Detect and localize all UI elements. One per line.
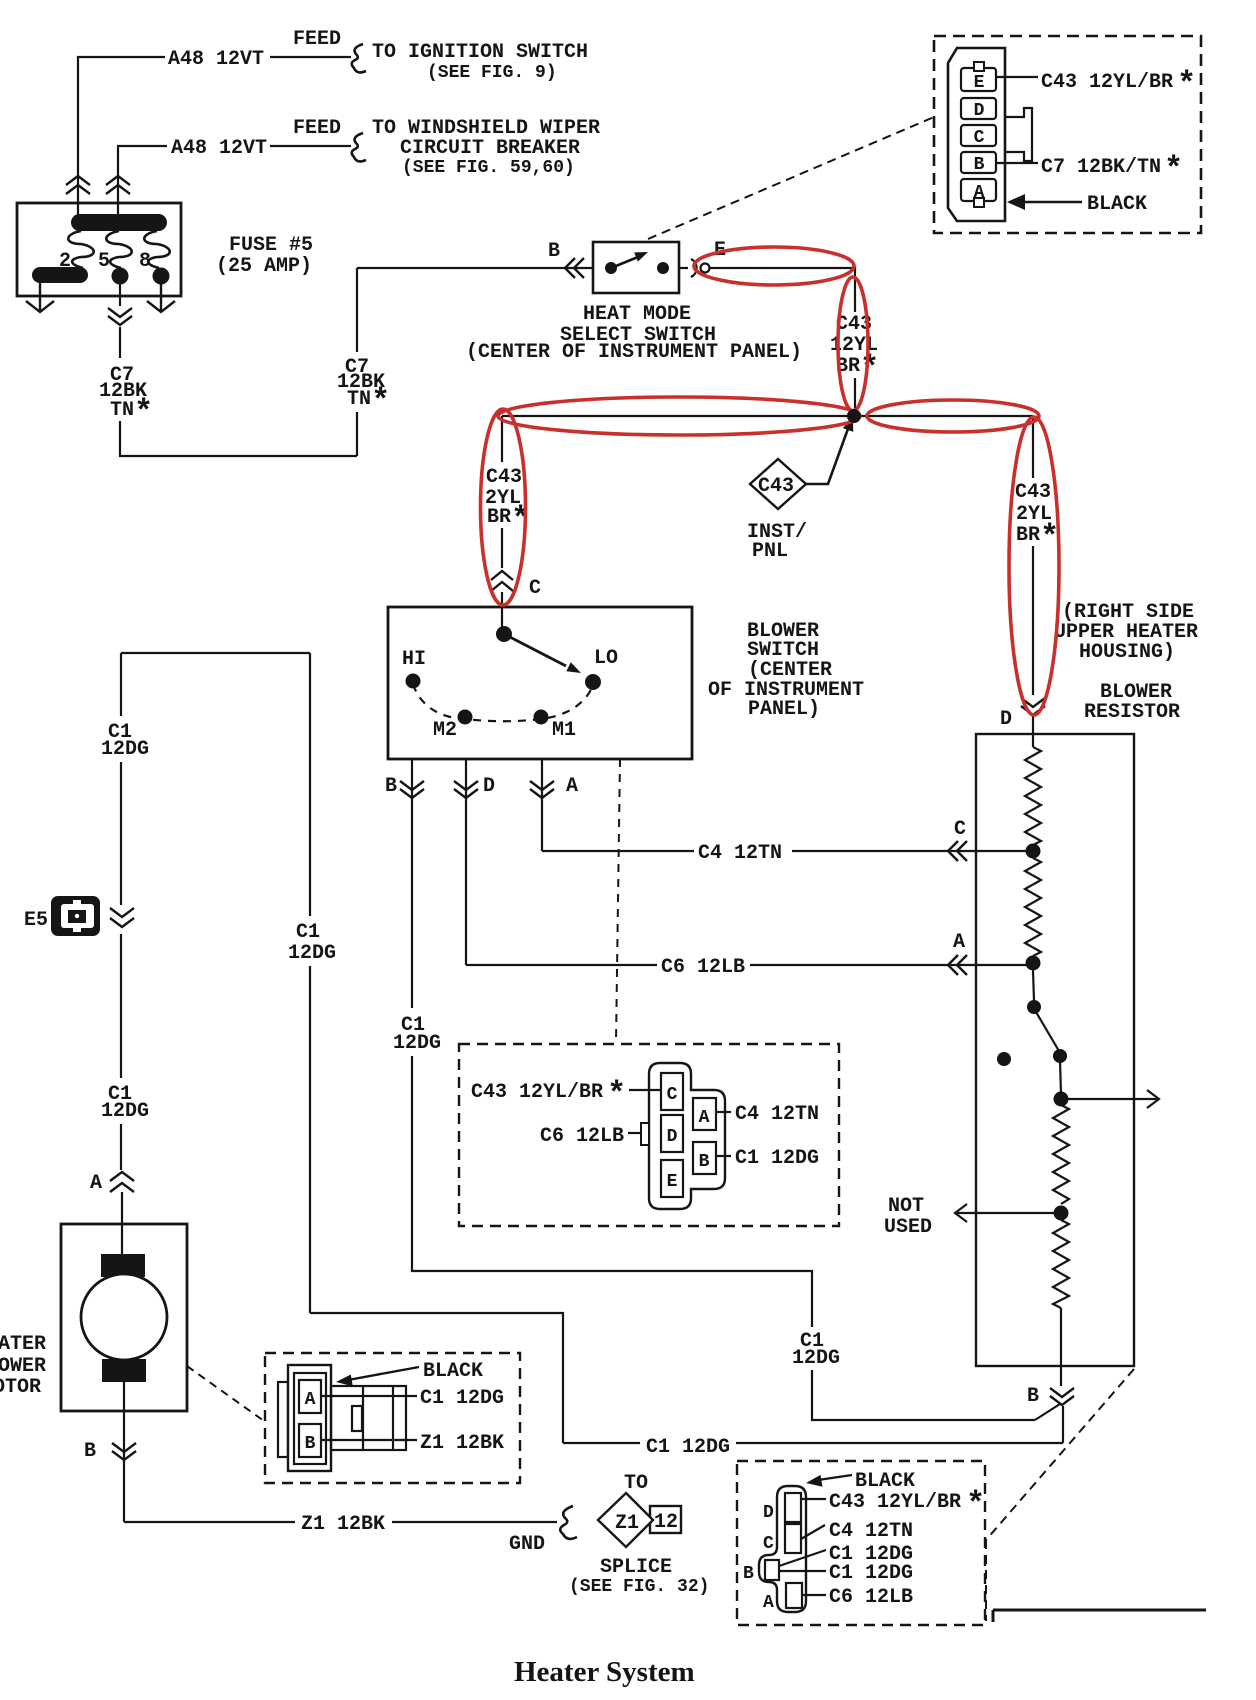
svg-text:TN*: TN*	[347, 383, 390, 420]
svg-text:B: B	[548, 240, 560, 263]
wire from fuse 5 down	[119, 283, 121, 306]
dashed leader to pin detail	[616, 759, 620, 1042]
wire into heat mode switch pin B	[357, 267, 593, 269]
svg-text:TO: TO	[624, 1472, 648, 1495]
wire housing B to label	[779, 1570, 826, 1572]
svg-text:A: A	[953, 931, 965, 954]
contact M2	[458, 710, 473, 725]
heat switch lever arrow	[611, 252, 648, 268]
pin D cavity	[961, 98, 996, 119]
svg-text:C: C	[763, 1534, 774, 1554]
svg-text:TN*: TN*	[110, 394, 153, 431]
svg-text:C43 12YL/BR: C43 12YL/BR	[471, 1081, 603, 1104]
svg-text:C43: C43	[486, 466, 522, 489]
svg-text:(SEE FIG. 32): (SEE FIG. 32)	[569, 1577, 709, 1597]
svg-text:12DG: 12DG	[792, 1347, 840, 1370]
connector chevron pin B	[565, 258, 584, 278]
wire C7 lower to corner	[120, 421, 357, 456]
connector chevron below fuse 5	[108, 308, 132, 325]
connector lock bracket	[1005, 108, 1032, 161]
svg-text:M2: M2	[433, 719, 457, 742]
not used tap dot	[1054, 1206, 1069, 1221]
wire housing A to label	[802, 1594, 826, 1596]
connector chevron pin A	[530, 781, 554, 798]
wire housing B diag to label	[779, 1550, 826, 1566]
svg-text:(SEE FIG. 9): (SEE FIG. 9)	[427, 63, 557, 83]
svg-text:12DG: 12DG	[101, 738, 149, 761]
housing pin B cavity	[765, 1560, 779, 1580]
motor brush top	[101, 1254, 145, 1277]
wire Z1 12BK ground run	[124, 1521, 557, 1523]
motor connector outer shell	[288, 1365, 331, 1471]
red highlight ellipse C43 vertical	[838, 277, 868, 411]
dashed rotor arc	[413, 684, 593, 721]
wire C43 horizontal right of junction	[855, 415, 1033, 417]
diagonal joint to pin B	[1035, 1404, 1060, 1420]
wiper diagonal	[1036, 1012, 1059, 1051]
not used arrow left	[955, 1204, 1061, 1222]
svg-text:Heater System: Heater System	[514, 1656, 695, 1688]
wire pin B to label	[996, 162, 1038, 164]
wire C1 12DG left vertical (lower)	[120, 934, 122, 1170]
svg-text:B: B	[743, 1564, 754, 1584]
contact M1	[534, 710, 549, 725]
svg-text:C7 12BK/TN: C7 12BK/TN	[1041, 156, 1161, 179]
svg-text:A: A	[566, 775, 578, 798]
fuse block bus bar	[71, 214, 167, 231]
svg-text:BLACK: BLACK	[1087, 193, 1147, 216]
svg-text:HI: HI	[402, 648, 426, 671]
wire C4 12TN	[542, 850, 1033, 852]
wire C1 12DG left vertical (upper)	[120, 653, 122, 905]
svg-text:A: A	[699, 1108, 710, 1128]
wire housing C to label	[801, 1525, 825, 1539]
wire into resistor	[1032, 716, 1034, 747]
break symbol to ignition switch	[352, 44, 366, 72]
partial border next figure	[993, 1610, 1206, 1622]
resistor element segment 4	[1053, 1220, 1069, 1308]
svg-text:C43: C43	[758, 475, 794, 498]
heater housing connector dashed box	[737, 1461, 985, 1625]
BLACK arrow (connector face)	[1007, 194, 1082, 210]
connector chevron pin B	[400, 781, 424, 798]
wire A48 12VT feed 1	[78, 57, 351, 218]
svg-text:(CENTER OF INSTRUMENT PANEL): (CENTER OF INSTRUMENT PANEL)	[466, 341, 802, 364]
connector chevron C4	[948, 841, 967, 861]
blower switch wiper arrow	[504, 634, 581, 673]
wire C43 down to blower switch pin C	[501, 416, 503, 634]
splice diamond Z1	[598, 1493, 653, 1547]
heat switch contact right	[657, 262, 669, 274]
red highlight ellipse junction right	[867, 400, 1039, 432]
svg-text:12: 12	[654, 1511, 678, 1534]
svg-text:C6 12LB: C6 12LB	[540, 1125, 624, 1148]
output arrow right	[1061, 1090, 1159, 1108]
svg-text:C: C	[954, 818, 966, 841]
resistor element segment 2	[1025, 858, 1041, 956]
red highlight ellipse junction left	[498, 397, 860, 435]
svg-text:M1: M1	[552, 719, 576, 742]
svg-text:C6 12LB: C6 12LB	[661, 956, 745, 979]
wire motor pin B down	[123, 1382, 125, 1522]
svg-text:(25 AMP): (25 AMP)	[216, 255, 312, 278]
svg-text:A48 12VT: A48 12VT	[168, 48, 264, 71]
motor pin B cavity	[299, 1424, 321, 1457]
svg-text:PNL: PNL	[752, 540, 788, 563]
connector chevron motor B	[112, 1443, 136, 1460]
wire top link motor feed	[121, 652, 310, 654]
svg-text:HOUSING): HOUSING)	[1079, 641, 1175, 664]
pin E cavity	[961, 68, 996, 91]
dashed leader motor to connector detail	[187, 1366, 264, 1421]
resistor element segment 3	[1053, 1105, 1069, 1204]
motor brush bottom	[102, 1359, 146, 1382]
svg-text:C1 12DG: C1 12DG	[420, 1387, 504, 1410]
svg-text:B: B	[974, 155, 985, 175]
connector chevron pin D resistor	[1021, 698, 1045, 715]
svg-text:A: A	[90, 1172, 102, 1195]
wire C1 12DG long vertical	[309, 653, 311, 1313]
svg-text:RESISTOR: RESISTOR	[1084, 701, 1180, 724]
pin E tab	[974, 62, 984, 71]
splice fig ref box 12	[650, 1506, 681, 1533]
svg-text:8: 8	[139, 250, 151, 273]
wire pin B below switch	[411, 759, 413, 1008]
svg-text:D: D	[763, 1503, 774, 1523]
down arrow terminal 2	[26, 283, 54, 312]
svg-text:HEATER: HEATER	[0, 1333, 46, 1356]
svg-text:A48 12VT: A48 12VT	[171, 137, 267, 160]
wire pin D below switch	[465, 759, 467, 965]
BLACK arrow (motor connector)	[336, 1367, 419, 1386]
wiper link wire	[1033, 970, 1034, 1001]
svg-text:C43: C43	[1015, 481, 1051, 504]
wire A48 12VT feed 2	[118, 146, 351, 218]
svg-text:PANEL): PANEL)	[748, 698, 820, 721]
svg-text:12DG: 12DG	[393, 1032, 441, 1055]
svg-text:B: B	[84, 1440, 96, 1463]
pin C cavity (detail)	[661, 1073, 683, 1110]
wire below resistor pin B	[1062, 1406, 1064, 1443]
svg-text:FEED: FEED	[293, 28, 341, 51]
junction node dot	[847, 409, 861, 423]
pin C cavity	[961, 125, 996, 146]
pin A cavity	[961, 179, 996, 201]
svg-text:FUSE #5: FUSE #5	[229, 234, 313, 257]
wire C7 right vertical	[356, 268, 358, 456]
svg-text:E: E	[974, 73, 985, 93]
svg-text:(SEE FIG. 59,60): (SEE FIG. 59,60)	[402, 158, 575, 178]
svg-text:A: A	[305, 1390, 316, 1410]
contact LO	[585, 674, 601, 690]
wire pin A below switch	[541, 759, 543, 851]
break symbol to wiper breaker	[352, 133, 366, 161]
wiper dot 2	[1053, 1049, 1067, 1063]
motor connector right housing	[331, 1386, 406, 1450]
svg-text:B: B	[385, 775, 397, 798]
pin D cavity (detail)	[661, 1115, 683, 1152]
svg-text:NOT: NOT	[888, 1195, 924, 1218]
svg-text:C4 12TN: C4 12TN	[829, 1520, 913, 1543]
svg-text:Z1 12BK: Z1 12BK	[301, 1513, 385, 1536]
resistor tap A	[1026, 956, 1041, 971]
connector chevron pin A motor	[110, 1172, 134, 1192]
blower switch common contact C	[496, 626, 512, 642]
blower switch box	[388, 607, 692, 759]
arrow from diamond to junction	[806, 417, 853, 484]
pin B cavity	[961, 152, 996, 173]
pin tab left	[641, 1123, 649, 1145]
svg-text:C4 12TN: C4 12TN	[735, 1103, 819, 1126]
housing connector body	[759, 1486, 806, 1612]
blower switch connector detail dashed box	[459, 1044, 839, 1226]
motor connector detail dashed box	[265, 1353, 520, 1483]
break symbol at splice	[560, 1506, 577, 1539]
svg-text:C43 12YL/BR: C43 12YL/BR	[1041, 71, 1173, 94]
red highlight ellipse resistor D wire	[1009, 417, 1059, 715]
wiper dot 1	[1027, 1000, 1041, 1014]
wire C6 12LB	[466, 964, 1033, 966]
connector chevron at E5	[110, 908, 134, 927]
motor connector left tab	[278, 1382, 288, 1457]
pin A tab	[974, 198, 984, 207]
svg-text:MOTOR: MOTOR	[0, 1376, 41, 1399]
svg-text:BLACK: BLACK	[855, 1470, 915, 1493]
svg-text:C1: C1	[296, 921, 320, 944]
blower resistor R1 box	[976, 734, 1134, 1366]
wire housing D to label	[801, 1498, 826, 1500]
svg-text:B: B	[305, 1434, 316, 1454]
svg-text:C: C	[667, 1085, 678, 1105]
wire label to pin C	[629, 1089, 661, 1091]
svg-text:A: A	[763, 1593, 774, 1613]
svg-text:12DG: 12DG	[101, 1100, 149, 1123]
fuse element 8	[144, 231, 170, 268]
svg-text:BLACK: BLACK	[423, 1360, 483, 1383]
svg-text:D: D	[483, 775, 495, 798]
svg-text:C: C	[974, 128, 985, 148]
svg-text:C43 12YL/BR: C43 12YL/BR	[829, 1491, 961, 1514]
wire pin A to label	[716, 1111, 731, 1113]
connector chevron pin B resistor	[1050, 1388, 1074, 1405]
svg-text:LO: LO	[594, 647, 618, 670]
pin A cavity (detail)	[693, 1098, 716, 1130]
heat mode select switch U2 box	[593, 242, 679, 293]
svg-text:USED: USED	[884, 1216, 932, 1239]
fuse element 5	[106, 231, 132, 268]
wire pin E to label	[996, 76, 1038, 78]
wire resistor to pin B	[1060, 1308, 1062, 1386]
svg-text:12DG: 12DG	[288, 942, 336, 965]
svg-text:BR*: BR*	[836, 350, 879, 387]
red highlight ellipse E wire	[694, 247, 854, 285]
wiper link wire 2	[1060, 1060, 1061, 1094]
connector chevron on wire A48-1	[66, 176, 90, 194]
svg-text:C4 12TN: C4 12TN	[698, 842, 782, 865]
svg-text:E5: E5	[24, 909, 48, 932]
wire blower switch B to resistor B	[412, 1056, 1035, 1420]
fuse terminal bar 2	[32, 267, 88, 283]
down arrow terminal 8	[147, 283, 175, 312]
motor armature circle	[81, 1274, 167, 1360]
wire pin B to label	[716, 1155, 731, 1157]
svg-text:C1 12DG: C1 12DG	[735, 1147, 819, 1170]
node dot output	[1054, 1092, 1069, 1107]
svg-text:BLOWER: BLOWER	[0, 1355, 46, 1378]
heat switch contact left	[605, 262, 617, 274]
svg-text:*: *	[1177, 66, 1196, 103]
pin B cavity (detail)	[693, 1142, 716, 1174]
housing pin D cavity	[785, 1493, 801, 1522]
red highlight ellipse blower C wire	[481, 409, 526, 605]
svg-text:Z1: Z1	[615, 1512, 639, 1535]
dashed leader to connector face view	[648, 117, 934, 239]
svg-text:HEAT MODE: HEAT MODE	[583, 303, 691, 326]
svg-text:*: *	[607, 1076, 626, 1113]
svg-text:TO IGNITION SWITCH: TO IGNITION SWITCH	[372, 41, 588, 64]
wire into motor	[121, 1192, 123, 1254]
wire C43 down to resistor pin D	[1032, 416, 1034, 695]
svg-text:D: D	[667, 1127, 678, 1147]
connector chevron on wire A48-2	[106, 176, 130, 194]
connector body (switch detail)	[649, 1063, 725, 1209]
svg-text:FEED: FEED	[293, 117, 341, 140]
svg-text:C6 12LB: C6 12LB	[829, 1586, 913, 1609]
C43 splice diamond	[750, 459, 806, 509]
fuse terminal dot 8	[153, 268, 170, 285]
svg-text:C1 12DG: C1 12DG	[646, 1436, 730, 1459]
housing pin A cavity	[786, 1583, 802, 1608]
wire C7 upper segment	[119, 327, 121, 358]
svg-text:B: B	[699, 1152, 710, 1172]
svg-text:BR*: BR*	[1016, 519, 1059, 556]
svg-text:SPLICE: SPLICE	[600, 1556, 672, 1579]
svg-text:D: D	[974, 101, 985, 121]
stray contact dot	[997, 1052, 1011, 1066]
resistor tap C	[1026, 844, 1041, 859]
BLACK arrow (housing connector)	[806, 1475, 852, 1487]
svg-text:B: B	[1027, 1385, 1039, 1408]
housing pin C cavity	[785, 1524, 801, 1553]
fuse terminal dot 5	[112, 268, 129, 285]
motor pin A cavity	[299, 1380, 321, 1413]
svg-text:Z1 12BK: Z1 12BK	[420, 1432, 504, 1455]
svg-text:D: D	[1000, 708, 1012, 731]
connector body outline	[948, 48, 1005, 221]
connector chevron pin C	[491, 571, 513, 591]
connector chevron pin D	[454, 781, 478, 798]
svg-text:5: 5	[98, 250, 110, 273]
fuse block box	[17, 203, 181, 296]
wire motor pin B to label	[321, 1439, 417, 1441]
svg-text:C: C	[529, 577, 541, 600]
eyelet E5	[51, 896, 100, 936]
fuse element 2	[68, 231, 94, 268]
wire to resistor B lower route	[310, 1313, 1063, 1443]
svg-text:*: *	[966, 1486, 985, 1523]
pin E cavity (detail)	[661, 1160, 683, 1197]
svg-text:A: A	[974, 183, 985, 203]
heater blower motor M1 box	[61, 1224, 187, 1411]
wire motor pin A to label	[321, 1395, 417, 1397]
svg-text:C1 12DG: C1 12DG	[829, 1562, 913, 1585]
connector symbol pin E	[691, 259, 710, 277]
resistor element segment 1	[1025, 747, 1041, 849]
wire label to pin D tab	[628, 1132, 641, 1134]
svg-text:E: E	[667, 1172, 678, 1192]
svg-text:GND: GND	[509, 1533, 545, 1556]
motor connector inner shell	[294, 1373, 326, 1464]
contact HI	[406, 674, 421, 689]
connector face view dashed box	[934, 36, 1201, 233]
svg-text:CIRCUIT BREAKER: CIRCUIT BREAKER	[400, 137, 580, 160]
wire C43 horizontal left of junction	[502, 415, 855, 417]
svg-text:*: *	[1164, 151, 1183, 188]
wire E to corner	[679, 268, 855, 416]
dashed leader resistor to connector detail	[986, 1369, 1134, 1621]
connector chevron C6	[948, 955, 967, 975]
